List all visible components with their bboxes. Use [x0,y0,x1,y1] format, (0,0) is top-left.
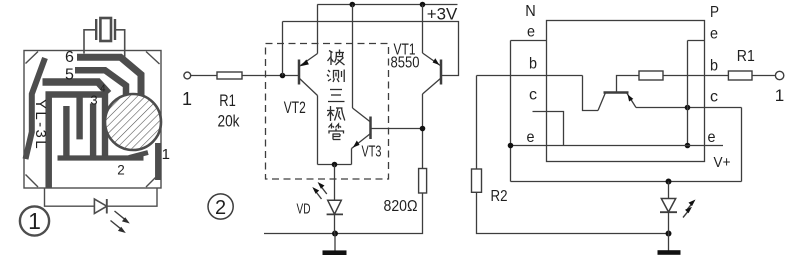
wire b to internal transistor collector [583,76,599,111]
wire 820 ohm to bottom rail [264,193,423,234]
Chinese caption SAN (drawn) [328,90,345,102]
svg-text:N: N [525,3,536,20]
wire R1 to VT2 base [242,75,298,77]
svg-text:YL-3L: YL-3L [32,99,49,151]
LED emission arrow 2 [111,221,126,234]
internal transistor emitter [627,93,637,108]
right tie vertical [687,41,689,146]
wire c row down to V+ [741,108,743,182]
svg-text:4: 4 [100,84,106,95]
VT3 emitter wire down [351,149,353,165]
internal transistor emitter arrowhead [628,94,634,101]
comb bottom bar (pad 2) [58,155,144,160]
corner chamfer bottom-left [26,175,39,188]
node to VD [332,162,338,168]
left pin b wire [477,75,583,77]
LED loop wire [45,188,95,206]
VT1 emitter [423,53,442,66]
crystal lead wire right [115,30,125,60]
node e row right [685,143,691,149]
e row wire [511,145,724,147]
svg-text:e: e [527,129,535,146]
resistor R1 20k [217,72,242,79]
terminal 1 [184,72,191,79]
resistor R2 [472,169,482,192]
wire V+ to LED [668,182,670,199]
VT2 collector wire down [317,96,319,165]
transistor VT2 base bar [298,60,301,85]
node LED bottom [666,231,672,237]
VT3 collector wire up [352,5,354,109]
corner chamfer bottom-right [146,174,160,188]
VT1 emitter wire up [422,5,424,54]
ground (figure 3) [658,234,681,255]
VT1 emitter arrowhead [433,58,440,65]
wire resistor to right b pin and R1 [663,75,728,77]
VT3 emitter arrowhead [353,141,360,148]
VD emission arrow 2 [318,182,327,194]
corner chamfer top-right [146,52,160,65]
wire b down to R2 [476,76,478,170]
svg-text:2: 2 [215,197,226,219]
LED emission arrow 1 [687,200,696,211]
svg-text:8550: 8550 [391,54,420,71]
wire R2 to bottom rail [477,192,669,233]
internal transistor base lead [617,76,640,93]
wire [107,188,157,206]
svg-text:b: b [529,56,537,73]
wire node up [282,22,284,76]
wire node to VD [334,165,336,201]
socket outline box [547,21,705,162]
LED cathode bar [660,211,677,213]
comb vertical A [45,92,52,189]
svg-text:c: c [529,87,537,104]
wire upper link to VT1 base [283,22,459,76]
svg-text:VT3: VT3 [362,143,382,160]
VT2 emitter [299,54,318,67]
node VT1 collector / VT3 base / 820 ohm [420,126,426,132]
svg-text:1: 1 [182,89,192,109]
svg-text:R1: R1 [219,91,236,110]
wide middle trace [43,82,109,94]
VT3 base wire [371,128,423,130]
svg-text:+3V: +3V [427,5,458,24]
+3V top rail [317,4,457,6]
VT2 collector [299,78,318,96]
Chinese caption CE (drawn) [327,70,344,83]
transistor VT1 base bar [440,60,443,85]
wire terminal to R1 [191,75,217,77]
svg-text:1: 1 [162,146,170,163]
Chinese caption JI (drawn) [327,106,345,121]
VT3 collector [353,108,371,122]
svg-text:b: b [710,58,718,75]
internal bias resistor [639,71,663,80]
LED cathode bar [106,199,108,214]
svg-text:P: P [710,4,719,21]
VT3 emitter [352,134,371,149]
comb finger B [63,106,69,158]
comb vertical E [102,94,108,157]
left pin c stub [533,112,564,146]
Chinese caption GUAN (drawn) [329,124,344,140]
corner chamfer top-left [26,52,39,64]
svg-text:5: 5 [65,66,74,83]
svg-text:6: 6 [65,49,74,66]
node rail/VT1 emitter [420,2,426,8]
terminal 1 [775,71,783,79]
emitter / c row wire [636,107,742,109]
LED VD triangle [328,200,342,214]
svg-text:R1: R1 [737,48,755,65]
svg-text:3: 3 [90,93,97,108]
LED VD cathode bar [327,213,343,215]
wire VT2 collector to VT3 emitter [318,164,352,166]
svg-text:2: 2 [117,162,125,177]
slanted left trace [26,58,46,159]
svg-text:e: e [527,24,535,41]
dashed box: transistor under test [266,44,389,180]
node bottom rail [332,231,338,237]
VT2 emitter wire up [317,5,319,54]
svg-text:20k: 20k [218,112,240,131]
svg-text:1: 1 [775,86,784,105]
crystal Y1 plates [100,18,111,41]
crystal lead wire left [84,30,96,54]
svg-text:e: e [710,26,718,43]
wire LED to node [668,212,670,233]
svg-text:c: c [710,89,718,106]
internal transistor collector [598,93,606,111]
resistor R1 [728,71,752,80]
trace pad 6 [77,57,141,97]
svg-text:VD: VD [297,201,311,218]
Chinese caption BEI (drawn) [328,50,345,66]
pad 1 bar [155,143,161,180]
transistor VT3 base bar [369,117,372,140]
node rail/VT3 collector [350,2,356,8]
comb finger C [76,95,82,139]
figure number circle 1 [20,206,49,235]
comb top bar (pad 4) [46,91,108,98]
node at R1/VT2 base [280,73,286,79]
crystal electrode left [95,19,97,40]
node e row left [508,143,514,149]
svg-text:1: 1 [28,208,41,234]
node c row [685,105,691,111]
VT1 collector [423,78,442,94]
right pin e (top) stub [688,40,705,42]
VD emission arrow 1 [312,187,321,199]
svg-text:e: e [708,129,716,146]
svg-text:VT2: VT2 [284,98,306,117]
ground (figure 2) [323,234,347,256]
LED triangle [661,199,675,213]
wire VD to rail [334,214,336,233]
LED emission arrow 2 [683,207,692,218]
VT2 emitter arrowhead [300,60,309,67]
resistor 820 ohm [419,169,427,194]
substrate outline [24,51,161,189]
figure number circle 2 [208,194,233,219]
left bus wire down [510,41,512,182]
comb bottom bar wedge [129,153,148,158]
svg-text:820Ω: 820Ω [384,198,418,215]
piezo disc (hatched circle) [105,94,161,150]
V+ rail [511,181,742,183]
trace pad 5 [75,70,126,95]
svg-text:V+: V+ [714,154,731,171]
LED emission arrow 1 [115,211,130,224]
comb finger D (pad 3) [90,104,96,159]
LED diode triangle [94,199,106,214]
left pin e (top) stub [511,40,547,42]
crystal electrode right [114,19,116,40]
node LED top on V+ [666,179,672,185]
svg-text:R2: R2 [491,188,508,205]
wire R1 to terminal [752,75,775,77]
internal transistor base bar [604,91,629,94]
VT1 collector wire down [422,94,424,169]
